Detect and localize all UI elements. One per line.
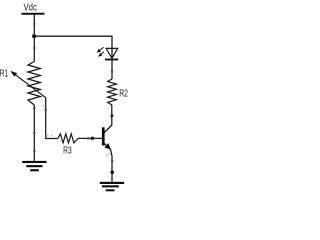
LED D1 emission arrow 2: [100, 52, 105, 56]
svg-text:Vdc: Vdc: [24, 2, 37, 14]
node emitter ground dot: [110, 171, 114, 175]
pin number grey mark near wiper top: [42, 104, 45, 106]
transistor Q1 emitter arrowhead: [104, 143, 111, 150]
node base junction dot: [91, 137, 94, 140]
wire LED to R2: [111, 60, 113, 79]
LED D1 emission arrow 1: [98, 47, 103, 51]
potentiometer R1 wiper arrow: [12, 72, 46, 98]
pin number grey marks near wiper bend: [46, 134, 49, 136]
wire wiper to R3: [45, 138, 58, 140]
node junction dot: [32, 34, 36, 38]
wire junction to right corner: [34, 35, 113, 37]
wire Vdc to junction: [33, 15, 35, 37]
wire wiper down: [45, 98, 47, 139]
svg-text:R1: R1: [0, 68, 8, 80]
svg-text:R2: R2: [119, 87, 128, 99]
svg-text:R3: R3: [63, 145, 72, 157]
resistor R2 zigzag: [108, 79, 117, 105]
wire R1 bottom to ground: [33, 105, 35, 162]
pin marker dots (grey): [33, 23, 113, 162]
wire emitter down to ground: [111, 149, 112, 182]
transistor Q1 base bar: [102, 127, 105, 145]
grey pin hook under emitter: [106, 154, 111, 156]
wire corner down to LED: [111, 36, 113, 58]
LED D1 triangle: [106, 48, 118, 58]
power rail Vdc bar: [21, 13, 44, 15]
ground right: [100, 182, 124, 192]
transistor Q1 collector diagonal: [104, 125, 112, 133]
transistor Q1 emitter diagonal: [104, 143, 110, 149]
wire R3 to base: [78, 137, 102, 139]
node collector pin dot: [110, 114, 113, 117]
ground left: [22, 161, 46, 171]
resistor R1 zigzag (potentiometer body): [28, 62, 40, 106]
LED D1 wire through: [111, 48, 113, 58]
wire R2 to collector: [111, 105, 113, 125]
resistor R3 zigzag: [58, 134, 78, 143]
LED D1 cathode bar: [105, 59, 118, 61]
wire junction down to R1: [33, 36, 35, 61]
